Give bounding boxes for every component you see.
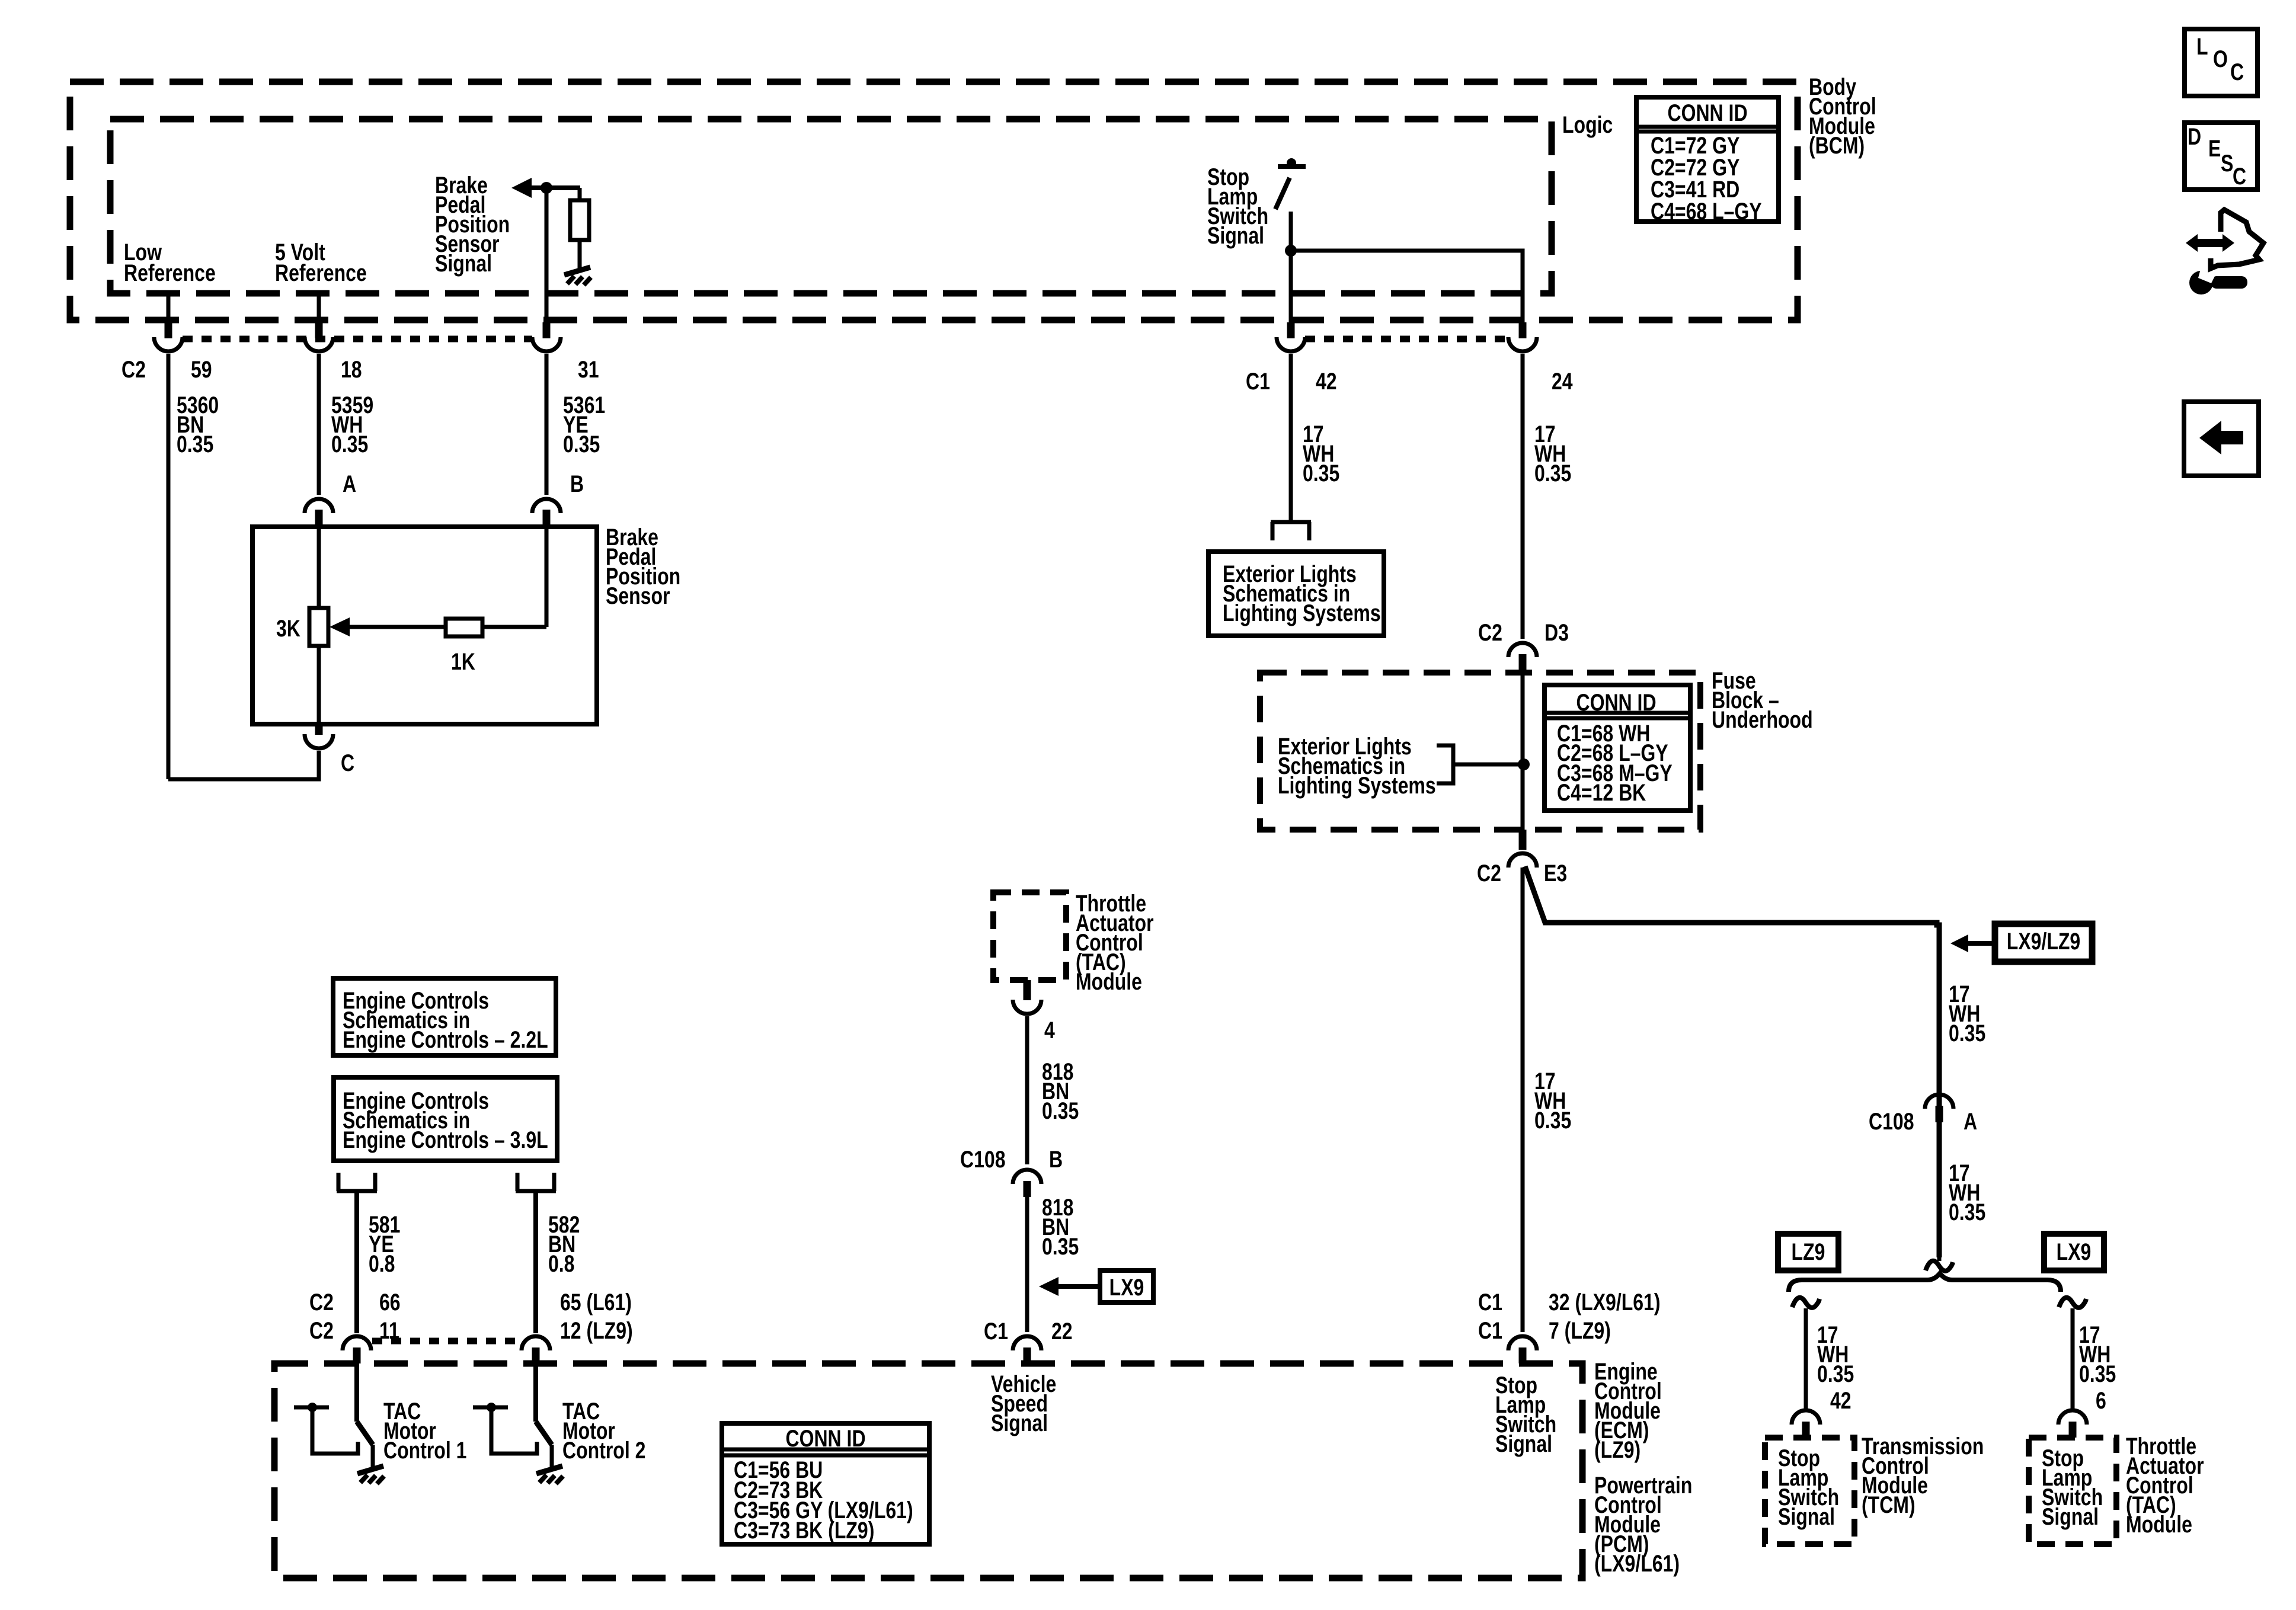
TAC Motor Control 1 switch — [294, 1363, 373, 1467]
wire to connector B — [545, 354, 549, 495]
svg-text:B: B — [570, 470, 584, 497]
connector C — [305, 724, 333, 748]
LZ9 flag — [1778, 1234, 1838, 1270]
label 1K — [451, 648, 475, 675]
Vehicle Speed Signal label — [991, 1371, 1056, 1436]
wire 17 WH 0.35 label (stop lamp mid) — [1534, 1068, 1571, 1134]
wire 17 WH 0.35 label (pin 24) — [1534, 421, 1571, 486]
svg-text:12 (LZ9): 12 (LZ9) — [560, 1317, 633, 1344]
svg-text:CONN ID: CONN ID — [1667, 100, 1747, 126]
svg-text:S: S — [2221, 150, 2233, 177]
svg-text:C3=73 BK (LZ9): C3=73 BK (LZ9) — [734, 1517, 874, 1544]
label C108 — [960, 1146, 1006, 1173]
label pin 24 — [1552, 368, 1573, 395]
connector C2 pin 31 — [532, 322, 561, 351]
svg-text:31: 31 — [578, 356, 599, 383]
svg-text:0.8: 0.8 — [548, 1250, 574, 1277]
svg-text:Lighting Systems: Lighting Systems — [1278, 772, 1436, 799]
PCM module label — [1594, 1472, 1692, 1577]
wiper arrow — [330, 617, 446, 636]
connector C1 stop lamp (ECM) — [1508, 1336, 1537, 1363]
wire 582 BN 0.8 label — [548, 1211, 580, 1277]
wire branch to LX9/LZ9 — [1525, 866, 1939, 1257]
svg-text:22: 22 — [1051, 1318, 1073, 1345]
Exterior Lights reference box (top) — [1208, 552, 1384, 636]
svg-text:Reference: Reference — [275, 260, 367, 286]
label C2 (D3) — [1478, 619, 1502, 646]
squiggle TAC wire — [2059, 1298, 2086, 1308]
svg-text:0.8: 0.8 — [369, 1250, 395, 1277]
svg-text:0.35: 0.35 — [2079, 1361, 2116, 1387]
wire 5 volt reference — [317, 295, 321, 327]
TAC module label — [1076, 890, 1154, 995]
continuation fork wire 581 — [337, 1173, 377, 1333]
label pin 7 (LZ9) — [1549, 1317, 1611, 1344]
wire 17 WH 0.35 label (pin 42) — [1303, 421, 1339, 486]
label pin 12 (LZ9) — [560, 1317, 633, 1344]
svg-text:Underhood: Underhood — [1712, 706, 1813, 733]
label pin 11 — [379, 1317, 399, 1344]
svg-text:C4=12 BK: C4=12 BK — [1557, 779, 1646, 806]
svg-text:C2: C2 — [1477, 860, 1501, 886]
label pin 4 — [1044, 1017, 1055, 1044]
wire low reference — [167, 295, 171, 327]
svg-text:D3: D3 — [1544, 619, 1569, 646]
svg-text:42: 42 — [1830, 1387, 1851, 1414]
label pin D3 — [1544, 619, 1569, 646]
svg-text:Module: Module — [1076, 968, 1142, 995]
svg-text:Engine Controls – 3.9L: Engine Controls – 3.9L — [343, 1126, 548, 1153]
svg-text:(TCM): (TCM) — [1862, 1491, 1916, 1518]
svg-text:0.35: 0.35 — [331, 431, 368, 457]
label C2 row1 — [309, 1289, 334, 1315]
svg-text:C108: C108 — [960, 1146, 1006, 1173]
wire 5359 WH 0.35 label — [331, 392, 373, 457]
TAC Motor Control 2 label — [562, 1398, 645, 1464]
brace — [1789, 1273, 2061, 1292]
label pin 42 — [1316, 368, 1337, 395]
svg-text:Signal: Signal — [435, 250, 492, 277]
svg-text:Reference: Reference — [124, 260, 216, 286]
connector C2 pin 59 — [154, 322, 183, 351]
svg-text:C2: C2 — [309, 1317, 334, 1344]
LX9 arrow — [1039, 1277, 1100, 1296]
LX9/LZ9 flag — [1995, 924, 2092, 962]
DESC legend box — [2185, 123, 2257, 190]
svg-text:42: 42 — [1316, 368, 1337, 395]
continuation fork (exterior lights) — [1271, 522, 1311, 540]
LX9 flag (right) — [2044, 1234, 2104, 1270]
label B — [570, 470, 584, 497]
svg-text:C2: C2 — [1478, 619, 1502, 646]
svg-text:C2: C2 — [121, 356, 146, 383]
LOC legend box — [2185, 29, 2257, 96]
svg-text:A: A — [343, 470, 356, 497]
connector C1 pin 42 — [1277, 322, 1305, 351]
Fuse Block label — [1712, 667, 1813, 733]
stop lamp switch — [1275, 158, 1306, 251]
svg-text:C: C — [2233, 163, 2246, 190]
svg-text:Engine Controls – 2.2L: Engine Controls – 2.2L — [343, 1026, 548, 1053]
wire C return loop — [168, 751, 319, 779]
svg-text:3K: 3K — [276, 615, 300, 642]
continuation fork wire 582 — [516, 1173, 556, 1333]
inline connector C108 B — [1013, 1170, 1041, 1197]
svg-text:LX9/LZ9: LX9/LZ9 — [2007, 928, 2080, 955]
svg-text:B: B — [1049, 1146, 1063, 1173]
Exterior Lights label (fuse block) — [1278, 733, 1436, 799]
label C2 — [121, 356, 146, 383]
fuse CONN ID table — [1544, 685, 1690, 811]
svg-text:(LZ9): (LZ9) — [1594, 1436, 1641, 1463]
label C1 (BCM) — [1246, 368, 1270, 395]
label pin 65 (L61) — [560, 1289, 632, 1315]
connector C2 pin D3 — [1508, 643, 1537, 673]
wire to pin C (loop) — [167, 354, 171, 779]
connector pin 6 (TAC) — [2058, 1410, 2087, 1438]
svg-text:E: E — [2208, 135, 2221, 162]
svg-text:A: A — [1964, 1108, 1977, 1135]
svg-text:C1: C1 — [1478, 1317, 1502, 1344]
svg-text:Signal: Signal — [991, 1410, 1048, 1436]
LX9/LZ9 arrow — [1950, 934, 1995, 952]
Stop Lamp Switch Signal dashed box (TAC) — [2029, 1438, 2116, 1544]
label pin 6 (TAC) — [2096, 1387, 2106, 1414]
label 3K — [276, 615, 300, 642]
svg-text:0.35: 0.35 — [1303, 460, 1339, 486]
wire to connector A — [317, 354, 321, 495]
label pin B — [1049, 1146, 1063, 1173]
ground TAC motor 1 — [357, 1466, 384, 1484]
harness dotted line TAC motor — [372, 1338, 522, 1345]
wire 581 YE 0.8 label — [369, 1211, 400, 1277]
svg-text:0.35: 0.35 — [1042, 1233, 1079, 1260]
label pin E3 — [1544, 860, 1567, 886]
ground (pull-up resistor) — [564, 267, 591, 285]
back arrow box — [2184, 402, 2259, 476]
svg-text:0.35: 0.35 — [177, 431, 213, 457]
label pin 18 — [341, 356, 362, 383]
BCM CONN ID table — [1636, 97, 1779, 225]
arrow (brake pedal position sensor signal) — [511, 178, 580, 198]
svg-text:0.35: 0.35 — [1534, 460, 1571, 486]
svg-text:Signal: Signal — [1778, 1503, 1835, 1530]
connector C2 pin 18 — [305, 322, 333, 351]
svg-text:C1: C1 — [1478, 1289, 1502, 1315]
BCM module dashed box — [70, 82, 1798, 320]
LX9 flag — [1100, 1270, 1153, 1302]
Logic dashed box — [110, 119, 1552, 293]
label C2 (E3) — [1477, 860, 1501, 886]
Brake Pedal Position Sensor box — [252, 527, 597, 724]
pull-up resistor — [570, 188, 589, 268]
ECM CONN ID table — [722, 1423, 929, 1544]
svg-text:18: 18 — [341, 356, 362, 383]
svg-text:C: C — [2230, 59, 2244, 85]
connector C2 pin 65/12 — [522, 1336, 550, 1363]
Stop Lamp Switch Signal label (ECM) — [1495, 1372, 1556, 1457]
connector pin 42 (TCM) — [1792, 1410, 1820, 1438]
label pin 32 (LX9/L61) — [1549, 1289, 1661, 1315]
label A — [343, 470, 356, 497]
svg-text:C1: C1 — [1246, 368, 1270, 395]
wire C108 A down — [1937, 1122, 1942, 1261]
svg-text:LX9: LX9 — [1109, 1274, 1144, 1301]
label C — [341, 750, 354, 776]
svg-text:Signal: Signal — [1207, 222, 1264, 249]
label C108 (A) — [1869, 1108, 1914, 1135]
wire stop lamp branch — [1291, 251, 1523, 327]
label C2 row2 — [309, 1317, 334, 1344]
label C1 row2 (stop lamp) — [1478, 1317, 1502, 1344]
wire 5360 BN 0.35 label — [177, 392, 219, 457]
svg-text:C108: C108 — [1869, 1108, 1914, 1135]
label pin 42 (TCM) — [1830, 1387, 1851, 1414]
svg-text:32 (LX9/L61): 32 (LX9/L61) — [1549, 1289, 1661, 1315]
svg-text:Module: Module — [2126, 1511, 2192, 1538]
wire E3 to ECM — [1521, 868, 1525, 1332]
label pin 22 — [1051, 1318, 1073, 1345]
label pin A — [1964, 1108, 1977, 1135]
svg-text:E3: E3 — [1544, 860, 1567, 886]
junction dot (fuse block) — [1518, 758, 1530, 770]
bracket (exterior lights tap) — [1437, 745, 1518, 783]
Brake Pedal Position Sensor Signal label — [435, 172, 510, 277]
svg-text:4: 4 — [1044, 1017, 1055, 1044]
Fuse Block dashed box — [1260, 673, 1700, 830]
harness dotted line C1 — [1305, 336, 1508, 343]
svg-text:L: L — [2196, 33, 2208, 60]
svg-text:0.35: 0.35 — [1534, 1107, 1571, 1134]
svg-text:Control 2: Control 2 — [562, 1437, 645, 1464]
svg-text:C: C — [341, 750, 354, 776]
svg-text:Logic: Logic — [1562, 111, 1613, 138]
svg-text:D: D — [2188, 123, 2201, 150]
wire to TAC connector — [2071, 1308, 2075, 1409]
junction dot (signal/resistor node) — [541, 182, 552, 194]
ECM/PCM dashed box — [274, 1363, 1582, 1578]
wire pin 42 down — [1289, 354, 1293, 520]
svg-text:6: 6 — [2096, 1387, 2106, 1414]
svg-text:7 (LZ9): 7 (LZ9) — [1549, 1317, 1611, 1344]
svg-text:Signal: Signal — [2042, 1503, 2099, 1530]
Logic label — [1562, 111, 1613, 138]
squiggle TCM wire — [1792, 1298, 1819, 1308]
svg-text:0.35: 0.35 — [563, 431, 600, 457]
TAC Motor Control 2 switch — [473, 1363, 552, 1467]
ECM module label — [1594, 1358, 1662, 1463]
svg-text:65 (L61): 65 (L61) — [560, 1289, 632, 1315]
wire brake pedal sensor signal — [545, 188, 549, 327]
svg-text:59: 59 — [191, 356, 212, 383]
label C1 row1 (stop lamp) — [1478, 1289, 1502, 1315]
TAC module label (bottom right) — [2126, 1433, 2204, 1538]
svg-text:Sensor: Sensor — [606, 582, 670, 609]
svg-text:0.35: 0.35 — [1949, 1199, 1985, 1225]
svg-text:0.35: 0.35 — [1817, 1361, 1854, 1387]
Low Reference label — [124, 239, 216, 286]
resistor 1K — [446, 619, 482, 636]
connector B — [532, 499, 561, 527]
svg-text:CONN ID: CONN ID — [785, 1425, 865, 1452]
BCM label — [1809, 73, 1876, 159]
svg-text:Control 1: Control 1 — [383, 1437, 466, 1464]
wire to TCM connector — [1804, 1308, 1808, 1409]
squiggle main wire — [1926, 1261, 1953, 1271]
wire through fuse block — [1521, 673, 1525, 831]
potentiometer 3K — [309, 527, 328, 724]
connector pin 4 — [1013, 980, 1041, 1014]
wire 17 WH 0.35 label (TCM) — [1817, 1321, 1854, 1387]
connector C2 pin 66/11 — [343, 1336, 371, 1363]
wire 818 BN 0.35 label (lower) — [1042, 1194, 1079, 1260]
Engine Controls 3.9L reference box — [334, 1077, 557, 1161]
wire 818 BN lower — [1025, 1197, 1029, 1332]
svg-text:C4=68 L–GY: C4=68 L–GY — [1651, 198, 1762, 225]
svg-text:1K: 1K — [451, 648, 475, 675]
Brake Pedal Position Sensor label — [606, 524, 680, 609]
wire 17 WH 0.35 label (below C108 A) — [1949, 1160, 1985, 1225]
junction dot (stop lamp) — [1285, 245, 1297, 257]
Stop Lamp Switch Signal dashed box (TCM) — [1765, 1438, 1854, 1544]
Engine Controls 2.2L reference box — [333, 978, 556, 1055]
ground TAC motor 2 — [536, 1466, 563, 1484]
svg-text:C2: C2 — [309, 1289, 334, 1315]
svg-text:O: O — [2213, 46, 2228, 72]
svg-text:C1: C1 — [984, 1318, 1008, 1345]
harness dotted line C2 — [183, 336, 532, 343]
svg-text:LX9: LX9 — [2057, 1238, 2092, 1265]
wire pin 24 down — [1521, 354, 1525, 639]
svg-text:Signal: Signal — [1495, 1430, 1552, 1457]
svg-text:Lighting Systems: Lighting Systems — [1223, 600, 1381, 626]
svg-text:(LX9/L61): (LX9/L61) — [1594, 1550, 1680, 1577]
Stop Lamp Switch Signal label (BCM) — [1207, 164, 1268, 249]
svg-text:CONN ID: CONN ID — [1576, 689, 1656, 716]
connector C1 pin 24 — [1508, 322, 1537, 351]
svg-text:0.35: 0.35 — [1949, 1020, 1985, 1046]
service information icon — [2186, 210, 2263, 295]
svg-text:LZ9: LZ9 — [1792, 1238, 1825, 1265]
wire 1K to B — [482, 527, 546, 627]
svg-text:0.35: 0.35 — [1042, 1097, 1079, 1124]
label pin 66 — [379, 1289, 401, 1315]
svg-text:66: 66 — [379, 1289, 401, 1315]
svg-text:24: 24 — [1552, 368, 1573, 395]
wire 17 WH 0.35 label (right upper) — [1949, 981, 1985, 1046]
connector C1 pin 22 — [1013, 1336, 1041, 1363]
connector A — [305, 499, 333, 527]
svg-text:(BCM): (BCM) — [1809, 132, 1865, 159]
TCM label — [1862, 1433, 1984, 1518]
TAC Motor Control 1 label — [383, 1398, 466, 1464]
wire 818 BN upper — [1025, 1016, 1029, 1164]
label pin 59 — [191, 356, 212, 383]
wire 5361 YE 0.35 label — [563, 392, 605, 457]
wire 818 BN 0.35 label (upper) — [1042, 1058, 1079, 1124]
wire 17 WH 0.35 label (TAC) — [2079, 1321, 2116, 1387]
TAC module dashed box — [993, 892, 1066, 980]
connector C2 pin E3 — [1508, 830, 1537, 868]
5 Volt Reference label — [275, 239, 367, 286]
label C1 (vehicle speed) — [984, 1318, 1008, 1345]
inline connector C108 A — [1925, 1094, 1953, 1122]
label pin 31 — [578, 356, 599, 383]
